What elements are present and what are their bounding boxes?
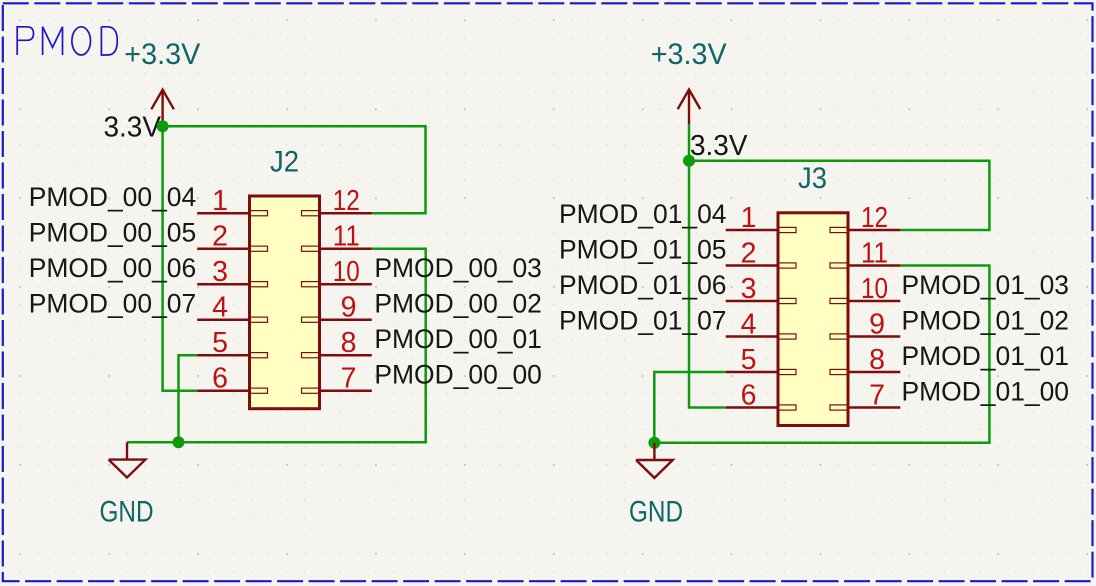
- pin 3 of J3: [726, 273, 796, 305]
- svg-text:PMOD_00_04: PMOD_00_04: [29, 182, 197, 212]
- svg-text:J2: J2: [270, 146, 299, 179]
- pin 7 of J2: [302, 363, 372, 395]
- junction at GND node of J2: [173, 436, 185, 448]
- title text PMOD: [17, 27, 117, 55]
- svg-text:PMOD_01_05: PMOD_01_05: [559, 235, 727, 265]
- svg-text:11: 11: [333, 221, 360, 253]
- pin 3 of J2: [197, 256, 267, 288]
- pin 5 of J2: [197, 327, 267, 359]
- connector J3 body: [778, 213, 848, 426]
- svg-text:3.3V: 3.3V: [104, 112, 162, 144]
- svg-text:7: 7: [341, 363, 357, 395]
- svg-text:PMOD_01_01: PMOD_01_01: [902, 341, 1070, 371]
- svg-text:1: 1: [212, 185, 228, 217]
- svg-text:12: 12: [861, 202, 888, 234]
- svg-text:5: 5: [212, 327, 228, 359]
- wire +3.3V to pin 6 of J3: [689, 161, 726, 408]
- wire +3.3V to pin 6 of J2: [163, 126, 198, 390]
- pin 6 of J3: [726, 379, 796, 411]
- svg-text:PMOD_00_07: PMOD_00_07: [29, 289, 197, 319]
- pin 9 of J3: [830, 308, 900, 340]
- svg-text:PMOD_00_00: PMOD_00_00: [374, 360, 542, 390]
- pin 2 of J2: [197, 221, 267, 253]
- pin 10 of J3: [830, 273, 900, 305]
- connector J2 body: [250, 196, 320, 409]
- svg-text:PMOD_00_05: PMOD_00_05: [29, 218, 197, 248]
- svg-text:PMOD_01_02: PMOD_01_02: [902, 306, 1070, 336]
- power symbol +3.3V for J2: [124, 38, 200, 126]
- svg-text:1: 1: [741, 202, 757, 234]
- svg-text:6: 6: [741, 379, 757, 411]
- pin 5 of J3: [726, 344, 796, 376]
- pin 1 of J3: [726, 202, 796, 234]
- wire +3.3V to pin 12 of J2: [163, 126, 426, 213]
- svg-text:PMOD_01_06: PMOD_01_06: [559, 270, 727, 300]
- svg-text:6: 6: [212, 363, 228, 395]
- wire pin 5 of J3 to GND junction: [654, 372, 725, 443]
- svg-text:PMOD_01_00: PMOD_01_00: [902, 377, 1070, 407]
- svg-text:PMOD_00_03: PMOD_00_03: [374, 253, 542, 283]
- svg-text:PMOD_01_03: PMOD_01_03: [902, 270, 1070, 300]
- svg-text:GND: GND: [100, 496, 154, 529]
- pin 11 of J2: [302, 221, 372, 253]
- pin 12 of J3: [830, 202, 900, 234]
- svg-text:2: 2: [741, 237, 757, 269]
- svg-text:PMOD_00_01: PMOD_00_01: [374, 324, 542, 354]
- svg-text:PMOD_00_02: PMOD_00_02: [374, 289, 542, 319]
- pin 7 of J3: [830, 379, 900, 411]
- pin 10 of J2: [302, 256, 372, 288]
- svg-text:PMOD_00_06: PMOD_00_06: [29, 253, 197, 283]
- svg-text:3: 3: [741, 273, 757, 305]
- pin 4 of J3: [726, 308, 796, 340]
- junction at GND node of J3: [648, 437, 660, 449]
- pin 11 of J3: [830, 237, 900, 269]
- svg-text:GND: GND: [629, 496, 683, 529]
- svg-text:9: 9: [869, 308, 885, 340]
- svg-text:5: 5: [741, 344, 757, 376]
- svg-text:PMOD_01_07: PMOD_01_07: [559, 306, 727, 336]
- power symbol GND for J2: [100, 442, 154, 528]
- svg-text:8: 8: [869, 344, 885, 376]
- svg-text:8: 8: [341, 327, 357, 359]
- svg-text:7: 7: [869, 379, 885, 411]
- svg-text:+3.3V: +3.3V: [651, 38, 727, 71]
- svg-text:+3.3V: +3.3V: [124, 38, 200, 71]
- svg-text:10: 10: [333, 256, 360, 288]
- junction at +3.3V node of J3: [683, 155, 695, 167]
- svg-text:J3: J3: [798, 162, 827, 195]
- junction at +3.3V node of J2: [157, 120, 169, 132]
- svg-text:3: 3: [212, 256, 228, 288]
- pin 8 of J2: [302, 327, 372, 359]
- pin 12 of J2: [302, 185, 372, 217]
- svg-text:PMOD_01_04: PMOD_01_04: [559, 199, 727, 229]
- wire +3.3V to pin 12 of J3: [689, 161, 989, 230]
- pin 9 of J2: [302, 292, 372, 324]
- svg-text:12: 12: [333, 185, 360, 217]
- pin 8 of J3: [830, 344, 900, 376]
- svg-text:3.3V: 3.3V: [690, 130, 748, 162]
- pin 4 of J2: [197, 292, 267, 324]
- wire pin 11 of J2 to GND junction: [127, 249, 426, 443]
- pin 2 of J3: [726, 237, 796, 269]
- svg-text:4: 4: [741, 308, 757, 340]
- svg-text:9: 9: [341, 292, 357, 324]
- wire pin 5 of J2 to GND junction: [179, 355, 198, 442]
- wire pin 11 of J3 to GND junction: [654, 266, 989, 443]
- svg-text:4: 4: [212, 292, 228, 324]
- pin 6 of J2: [197, 363, 267, 395]
- svg-text:2: 2: [212, 221, 228, 253]
- pin 1 of J2: [197, 185, 267, 217]
- svg-text:10: 10: [861, 273, 888, 305]
- power symbol GND for J3: [629, 443, 683, 529]
- svg-text:11: 11: [861, 237, 888, 269]
- power symbol +3.3V for J3: [651, 38, 727, 161]
